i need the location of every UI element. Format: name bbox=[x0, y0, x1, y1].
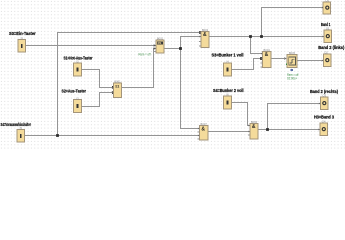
svg-text:S2=Aus-Taster: S2=Aus-Taster bbox=[62, 89, 87, 94]
svg-text:&: & bbox=[265, 52, 269, 58]
svg-text:B005: B005 bbox=[289, 51, 296, 55]
wire OR out to RS.R bbox=[122, 49, 157, 88]
wire B004 out to B005 bbox=[271, 58, 284, 60]
stub B003.3 bbox=[199, 41, 201, 43]
svg-text:Q5: Q5 bbox=[325, 0, 329, 2]
svg-text:B002: B002 bbox=[157, 37, 164, 41]
stub B004.4 bbox=[261, 66, 263, 68]
junction B003 out 1 bbox=[249, 35, 252, 38]
svg-text:&: & bbox=[252, 124, 256, 130]
timer B005 bbox=[286, 55, 297, 72]
junction OR in1 bbox=[112, 86, 115, 89]
blocks bbox=[17, 2, 332, 142]
input I2 S1 bbox=[74, 63, 82, 76]
input I3 Aus bbox=[74, 100, 82, 113]
output Q3 Band2rechts bbox=[321, 97, 329, 110]
svg-text:S4=Vorauswahlschalter: S4=Vorauswahlschalter bbox=[1, 122, 32, 127]
junction S4 line bbox=[56, 134, 59, 137]
svg-text:RS: RS bbox=[158, 41, 162, 45]
input arrow Q3 bbox=[319, 103, 321, 105]
wire branch down to B004.1 bbox=[251, 37, 263, 54]
RS flipflop B002 bbox=[156, 40, 164, 53]
wire B006 out to Q4 bbox=[258, 129, 320, 131]
svg-text:≥1: ≥1 bbox=[115, 85, 119, 89]
input arrow B005 Trg bbox=[284, 57, 286, 60]
input arrow OR in2 bbox=[112, 92, 114, 94]
stub RS Par bbox=[154, 51, 156, 53]
svg-text:&: & bbox=[203, 32, 207, 38]
AND gate B003 bbox=[201, 32, 209, 48]
wire junction up to B003.2 bbox=[181, 37, 202, 49]
input arrow B003 in2 bbox=[199, 36, 201, 38]
svg-text:&: & bbox=[201, 126, 205, 132]
svg-text:B006: B006 bbox=[251, 120, 258, 124]
svg-text:Rem = off: Rem = off bbox=[139, 52, 151, 56]
input arrow B004 in2 bbox=[261, 58, 263, 60]
stub B007.2 bbox=[198, 131, 200, 133]
junction OR in2 bbox=[112, 91, 115, 94]
input I5 Vorauswahl bbox=[17, 130, 25, 143]
svg-text:B004: B004 bbox=[264, 48, 271, 52]
input arrow B006 in2 bbox=[248, 131, 250, 133]
svg-text:Band 2 (links): Band 2 (links) bbox=[318, 45, 344, 50]
input arrow RS R bbox=[154, 47, 156, 50]
input arrow B003 in1 bbox=[199, 32, 201, 34]
output Q4 Band3 bbox=[320, 123, 328, 136]
input I1 S0 bbox=[18, 40, 26, 53]
junction B004 in2 bbox=[260, 57, 263, 60]
wire I4 Bunker2 to B006.1 bbox=[232, 103, 251, 126]
wire I1 to RS.S bbox=[26, 45, 157, 47]
svg-text:Q4: Q4 bbox=[322, 120, 326, 124]
svg-text:B007: B007 bbox=[201, 122, 208, 126]
svg-text:S1=Not-Aus-Taster: S1=Not-Aus-Taster bbox=[64, 55, 93, 60]
AND gate B004 bbox=[263, 52, 272, 68]
wire junction down to B007.1 bbox=[181, 49, 200, 129]
svg-text:H3=Band 3: H3=Band 3 bbox=[314, 114, 334, 119]
svg-text:B001: B001 bbox=[114, 80, 121, 84]
svg-text:02:00s+: 02:00s+ bbox=[287, 77, 297, 81]
input arrow OR in1 bbox=[112, 87, 114, 89]
input arrow B007 in3 bbox=[198, 135, 200, 137]
input arrow B006 in1 bbox=[248, 125, 250, 127]
stub B006.3 bbox=[248, 134, 250, 136]
svg-text:B003: B003 bbox=[202, 28, 209, 32]
input arrow Q2 bbox=[322, 60, 324, 62]
wire I2 to OR.1 bbox=[82, 70, 114, 88]
wire B005 out to Q Band2links bbox=[297, 60, 324, 62]
stub B007.4 bbox=[198, 138, 200, 140]
svg-text:Band 2 (rechts): Band 2 (rechts) bbox=[310, 89, 338, 94]
wire branch up to Q top bbox=[262, 8, 324, 37]
input arrow RS S bbox=[154, 44, 156, 47]
junction B003 out 2 bbox=[260, 35, 263, 38]
output Q1 Band1 bbox=[324, 30, 332, 43]
svg-text:S4=Bunker 2 voll: S4=Bunker 2 voll bbox=[213, 88, 244, 93]
svg-text:Band 1: Band 1 bbox=[321, 22, 331, 27]
wire S4 preselect bottom line bbox=[25, 135, 200, 137]
input I4 Bunker1 bbox=[224, 63, 232, 76]
wire I3 Bunker1 to B004.2 bbox=[232, 59, 263, 70]
input arrow Q top bbox=[322, 7, 324, 9]
wire I3 Aus to OR.2 bbox=[82, 93, 114, 107]
svg-text:Q2: Q2 bbox=[324, 50, 328, 54]
input arrow Q1 bbox=[322, 36, 324, 38]
junction B003 in1 bbox=[199, 31, 202, 34]
wire branch up to Q3 bbox=[268, 104, 321, 130]
stub B004.3 bbox=[261, 62, 263, 64]
input arrow B007 in1 bbox=[198, 128, 200, 130]
svg-text:Q1: Q1 bbox=[326, 27, 330, 31]
input I6 Bunker2 bbox=[224, 96, 232, 109]
input arrow Q4 bbox=[318, 129, 320, 131]
tiny block numbers bbox=[20, 0, 330, 130]
wire S4 preselect top route bbox=[58, 33, 201, 136]
junction RS out bbox=[179, 47, 182, 50]
wire B003 out to Q Band1 bbox=[209, 36, 324, 38]
junction B006 out bbox=[266, 128, 269, 131]
svg-text:S3=Bunker 1 voll: S3=Bunker 1 voll bbox=[212, 52, 244, 57]
output Q2 Band2links bbox=[324, 54, 332, 67]
svg-text:S0=Ein-Taster: S0=Ein-Taster bbox=[9, 31, 36, 36]
svg-text:Q3: Q3 bbox=[322, 94, 326, 98]
AND gate B007 bbox=[200, 126, 209, 141]
input arrow B004 in1 bbox=[261, 53, 263, 55]
stub B003.4 bbox=[199, 45, 201, 47]
output Q top bbox=[323, 2, 331, 14]
wire RS out to junction bbox=[164, 48, 181, 50]
AND gate B006 bbox=[250, 124, 258, 140]
wire B007 out to B006.2 bbox=[208, 131, 250, 133]
OR gate B001 bbox=[114, 83, 122, 98]
